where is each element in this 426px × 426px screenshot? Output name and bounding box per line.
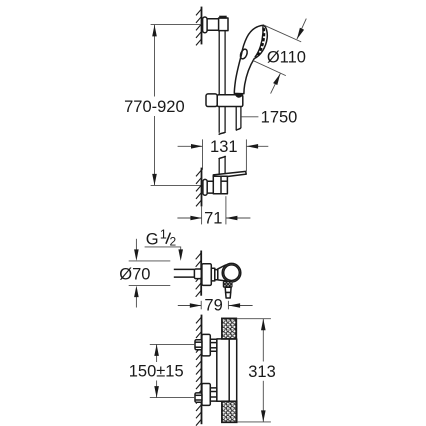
rail break (lower start) xyxy=(219,156,226,159)
wall hatch (front view) xyxy=(196,317,201,425)
wall (top bracket) xyxy=(201,7,203,45)
svg-text:2: 2 xyxy=(170,234,177,248)
leader 1750 xyxy=(242,116,259,118)
outlet tip xyxy=(226,293,231,299)
rail top cap xyxy=(219,16,227,19)
inlet pipe (side view) xyxy=(174,269,195,277)
svg-text:131: 131 xyxy=(210,138,238,156)
bottom escutcheon (front view) xyxy=(202,384,210,406)
outlet knurled nut xyxy=(223,282,232,288)
temperature knob (top, knurled) xyxy=(222,318,236,339)
volume knob (bottom, knurled) xyxy=(222,401,237,422)
valve collars xyxy=(211,268,215,281)
top bracket arm xyxy=(207,19,219,31)
svg-text:313: 313 xyxy=(248,363,276,381)
hose xyxy=(236,107,241,131)
wall hatch (side view) xyxy=(196,253,201,297)
hand shower outline xyxy=(234,25,267,94)
dimension 313 xyxy=(237,319,271,422)
valve cone xyxy=(218,265,226,281)
bottom bracket block xyxy=(213,176,227,193)
hose nut crescent xyxy=(235,94,243,97)
top inlet nut xyxy=(195,340,202,350)
hand shower side button xyxy=(239,48,248,60)
wall (front view) xyxy=(201,315,203,425)
dimension 71 xyxy=(177,196,250,224)
wall hatch (bottom bracket) xyxy=(196,170,201,206)
svg-text:G: G xyxy=(146,230,159,248)
dimension Ø110 xyxy=(252,19,306,94)
top escutcheon (front view) xyxy=(202,334,210,356)
svg-text:Ø110: Ø110 xyxy=(267,48,306,66)
bottom bracket paddle xyxy=(213,171,246,176)
hose break xyxy=(236,128,241,130)
inlet nut (side view) xyxy=(194,269,201,279)
svg-text:770-920: 770-920 xyxy=(124,98,185,116)
top bracket flange xyxy=(203,17,208,33)
svg-text:Ø70: Ø70 xyxy=(119,265,150,283)
escutcheon (side view) xyxy=(202,264,211,286)
wall hatch (top bracket) xyxy=(196,9,201,45)
outlet cylinder xyxy=(225,287,231,292)
thermostat body xyxy=(217,339,237,401)
dimension 79 xyxy=(178,301,253,310)
svg-text:79: 79 xyxy=(204,297,222,315)
bottom union nut xyxy=(210,388,217,401)
rail top block xyxy=(219,18,228,31)
wall (bottom bracket) xyxy=(201,168,203,207)
wall (side view) xyxy=(200,251,202,296)
rail (vertical bar) xyxy=(219,30,225,176)
knob inner circle xyxy=(224,265,240,281)
holder knob xyxy=(206,94,217,107)
svg-text:150±15: 150±15 xyxy=(129,363,184,381)
svg-text:71: 71 xyxy=(204,210,222,228)
bottom bracket flange xyxy=(203,179,207,195)
knob outer circle xyxy=(222,263,241,282)
dimension Ø70 xyxy=(129,239,171,308)
dimension 770-920 xyxy=(151,24,203,185)
svg-text:1: 1 xyxy=(160,228,167,242)
G 1/2 leader xyxy=(145,247,181,252)
rail break (upper end) xyxy=(219,132,226,135)
svg-text:1750: 1750 xyxy=(261,109,298,127)
bottom bracket arm xyxy=(207,181,213,193)
dimension 131 xyxy=(178,139,269,171)
hand shower nozzle dashes xyxy=(257,28,264,56)
holder body xyxy=(217,95,243,107)
hand shower face inner line xyxy=(255,26,263,57)
bottom inlet nut xyxy=(195,393,202,402)
dimension 150±15 xyxy=(150,344,195,397)
top union nut xyxy=(210,339,217,351)
